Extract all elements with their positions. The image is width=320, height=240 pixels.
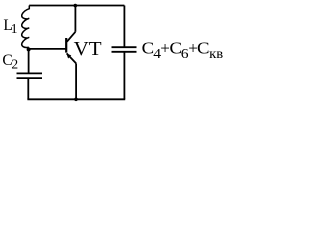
svg-text:кв: кв xyxy=(209,46,223,61)
svg-text:+: + xyxy=(160,39,170,58)
svg-text:C: C xyxy=(142,39,155,58)
svg-text:C: C xyxy=(197,39,210,58)
svg-text:1: 1 xyxy=(11,21,18,36)
svg-text:VT: VT xyxy=(74,38,102,60)
svg-text:2: 2 xyxy=(11,57,18,72)
